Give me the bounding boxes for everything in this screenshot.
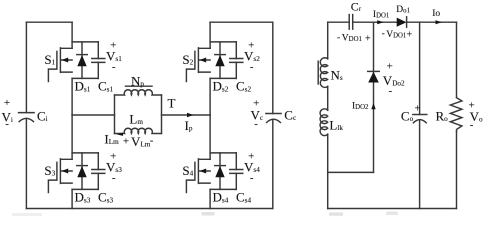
wire: secondary left rail bottom bbox=[327, 134, 329, 208]
wire: S3 cell bottom bbox=[72, 188, 98, 190]
svg-text:Ro: Ro bbox=[436, 108, 449, 123]
svg-text:T: T bbox=[168, 96, 176, 111]
wire: secondary top middle bbox=[353, 21, 397, 23]
arrow IDO2 bbox=[371, 103, 375, 109]
svg-text:S1: S1 bbox=[44, 52, 55, 67]
svg-text:-: - bbox=[250, 61, 254, 73]
wire: Do2 return link bbox=[328, 171, 374, 173]
winding Ns bbox=[320, 58, 327, 88]
core line of Np bbox=[126, 85, 153, 87]
svg-text:Lm: Lm bbox=[129, 112, 143, 127]
wire: secondary left rail top bbox=[327, 22, 329, 59]
capacitor Cs4 bbox=[230, 153, 243, 190]
arrow IDO1 bbox=[377, 20, 384, 24]
svg-text:+: + bbox=[387, 60, 393, 72]
svg-text:Ns: Ns bbox=[331, 68, 343, 83]
svg-text:VLm: VLm bbox=[131, 134, 151, 149]
wire: S3 drain rail bbox=[71, 115, 73, 159]
diode Ds3 bbox=[77, 153, 88, 190]
svg-text:Ds4: Ds4 bbox=[213, 190, 229, 205]
wire: S4 source rail bbox=[209, 189, 211, 208]
svg-text:S2: S2 bbox=[182, 52, 193, 67]
arrow ILm bbox=[116, 133, 123, 136]
wire: bottom bus right block bbox=[328, 208, 457, 210]
svg-text:+: + bbox=[365, 33, 371, 44]
svg-text:Co: Co bbox=[401, 108, 414, 123]
watermark smudge middle bbox=[329, 213, 343, 216]
wire: secondary top right bbox=[407, 21, 457, 23]
svg-text:Np: Np bbox=[131, 73, 144, 88]
winding Np bbox=[115, 90, 162, 95]
svg-text:VDO1: VDO1 bbox=[342, 33, 362, 43]
svg-text:-: - bbox=[254, 118, 258, 130]
svg-text:-: - bbox=[5, 118, 9, 130]
wire: Do2 branch vertical bbox=[373, 22, 375, 172]
svg-text:-: - bbox=[112, 61, 116, 73]
arrow Ip bbox=[187, 113, 194, 118]
wire: clamp rail upper bbox=[272, 22, 274, 113]
svg-text:Cs4: Cs4 bbox=[236, 190, 251, 205]
wire: S1 source rail to node A bbox=[71, 78, 73, 115]
svg-text:Ip: Ip bbox=[185, 118, 193, 133]
svg-text:IDO1: IDO1 bbox=[373, 10, 389, 20]
transistor Q S2 bbox=[186, 48, 210, 82]
transistor Q S4 bbox=[186, 159, 210, 193]
wire: S2 cell bottom bbox=[210, 77, 236, 79]
wire: Co branch upper bbox=[419, 22, 421, 114]
svg-text:-: - bbox=[150, 135, 154, 147]
wire: primary left bbox=[72, 114, 114, 116]
svg-text:Cs1: Cs1 bbox=[98, 79, 113, 94]
wire: S2 drain rail bbox=[209, 22, 211, 48]
svg-text:Ds2: Ds2 bbox=[213, 79, 229, 94]
svg-text:+: + bbox=[407, 29, 413, 40]
wire: top-right segment bbox=[210, 21, 273, 23]
svg-text:Do1: Do1 bbox=[396, 5, 410, 15]
diode Ds4 bbox=[215, 153, 226, 190]
diode Do2 bbox=[368, 71, 380, 82]
svg-text:VDo2: VDo2 bbox=[383, 73, 405, 88]
wire: primary right bbox=[162, 114, 211, 116]
wire: S3 cell top bbox=[72, 152, 98, 154]
svg-text:-: - bbox=[337, 33, 340, 43]
core line of Ns bbox=[317, 61, 319, 84]
wire: Co branch lower bbox=[419, 120, 421, 208]
capacitor Co bbox=[413, 115, 427, 123]
svg-text:Llk: Llk bbox=[329, 118, 343, 133]
svg-text:VDO1: VDO1 bbox=[386, 30, 406, 40]
svg-text:Cs3: Cs3 bbox=[98, 190, 113, 205]
svg-text:-: - bbox=[389, 85, 393, 97]
wire: secondary left rail middle bbox=[327, 86, 329, 110]
wire: bottom bus left block bbox=[26, 208, 272, 210]
wire: S4 cell top bbox=[210, 152, 236, 154]
transistor Q S1 bbox=[48, 48, 72, 82]
wire: secondary top left bbox=[328, 21, 350, 23]
wire: S4 drain rail bbox=[209, 115, 211, 159]
svg-text:-: - bbox=[470, 119, 474, 131]
svg-text:+: + bbox=[415, 102, 421, 114]
wire: top-left segment bbox=[26, 21, 72, 23]
arrow Io bbox=[436, 20, 443, 24]
svg-text:Io: Io bbox=[432, 9, 440, 19]
inductor Lm bbox=[115, 128, 162, 133]
wire: S1 drain rail bbox=[71, 22, 73, 48]
wire: S1 cell top bbox=[72, 41, 98, 43]
resistor Ro bbox=[450, 98, 462, 132]
capacitor Cs3 bbox=[92, 153, 105, 190]
diode Do1 bbox=[397, 17, 407, 27]
svg-text:-: - bbox=[382, 29, 385, 39]
wire: output rail lower bbox=[456, 132, 458, 209]
capacitor Ci bbox=[19, 113, 35, 122]
transformer T box left edge bbox=[114, 95, 116, 134]
diode Ds2 bbox=[215, 42, 226, 79]
transistor Q S3 bbox=[48, 159, 72, 193]
wire: input left rail lower bbox=[25, 119, 27, 209]
watermark smudge left bbox=[202, 212, 215, 216]
capacitor Cs1 bbox=[92, 42, 105, 79]
capacitor Cr bbox=[349, 15, 353, 30]
svg-text:S3: S3 bbox=[44, 163, 55, 178]
wire: input left rail upper bbox=[25, 22, 27, 112]
inductor Llk bbox=[320, 109, 328, 136]
capacitor Cc bbox=[266, 114, 281, 123]
diode Ds1 bbox=[77, 42, 88, 79]
watermark smudge right bbox=[386, 212, 398, 216]
svg-text:+: + bbox=[123, 135, 129, 147]
svg-text:-: - bbox=[112, 172, 116, 184]
wire: S2 cell top bbox=[210, 41, 236, 43]
svg-text:-: - bbox=[250, 172, 254, 184]
wire: output rail upper bbox=[456, 22, 458, 97]
wire: S3 source rail bbox=[71, 189, 73, 208]
svg-text:Cs2: Cs2 bbox=[236, 79, 251, 94]
svg-text:IDO2: IDO2 bbox=[352, 101, 369, 111]
svg-text:Ds3: Ds3 bbox=[75, 190, 91, 205]
svg-text:S4: S4 bbox=[182, 163, 193, 178]
wire: S1 cell bottom bbox=[72, 77, 98, 79]
svg-text:Ds1: Ds1 bbox=[75, 79, 91, 94]
svg-text:Ci: Ci bbox=[37, 109, 48, 124]
wire: S4 cell bottom bbox=[210, 188, 236, 190]
svg-text:Cr: Cr bbox=[351, 0, 362, 13]
wire: clamp rail lower bbox=[272, 120, 274, 209]
svg-text:+: + bbox=[4, 97, 10, 109]
capacitor Cs2 bbox=[230, 42, 243, 79]
wire: S2 source rail to node B bbox=[209, 78, 211, 115]
transformer T box right edge bbox=[161, 95, 163, 134]
svg-text:Cc: Cc bbox=[284, 108, 296, 123]
watermark smudge far left bbox=[12, 213, 42, 216]
